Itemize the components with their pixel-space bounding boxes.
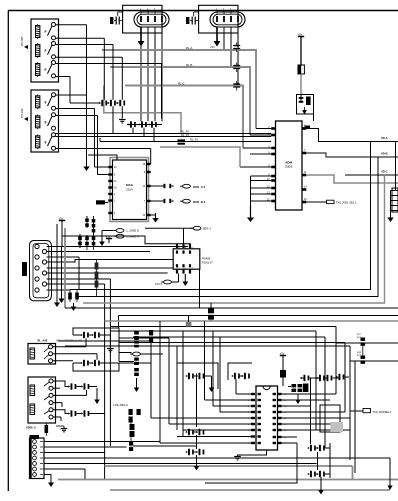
svg-text:MAX: MAX: [126, 183, 133, 187]
svg-text:RL_P0: RL_P0: [181, 130, 189, 134]
svg-text:L_GND 8: L_GND 8: [127, 229, 139, 233]
svg-text:RL_P1: RL_P1: [181, 133, 189, 137]
svg-text:RS-485: RS-485: [20, 36, 24, 46]
svg-text:RS-232: RS-232: [20, 108, 24, 118]
svg-text:RL-B: RL-B: [186, 63, 193, 67]
svg-text:F: F: [45, 49, 47, 53]
svg-text:+5V: +5V: [210, 45, 215, 49]
svg-text:1 45L-45DL.D: 1 45L-45DL.D: [113, 404, 128, 407]
svg-text:RL_P2: RL_P2: [190, 138, 198, 142]
svg-text:VD08_A: VD08_A: [26, 426, 36, 430]
svg-text:F: F: [45, 68, 47, 72]
svg-text:9: 9: [45, 120, 47, 124]
svg-text:F: F: [45, 30, 47, 34]
svg-text:RL-C: RL-C: [178, 81, 185, 85]
svg-text:RL-A: RL-A: [186, 46, 193, 50]
svg-text:RS485: RS485: [202, 257, 211, 261]
svg-text:SER 1: SER 1: [203, 226, 212, 230]
svg-text:L5V 0: L5V 0: [155, 282, 163, 286]
svg-text:VD-B: VD-B: [381, 152, 388, 156]
svg-text:VD-A: VD-A: [381, 136, 388, 140]
svg-text:232A: 232A: [126, 188, 133, 192]
svg-text:9: 9: [45, 140, 47, 144]
svg-text:RXD_A 2: RXD_A 2: [193, 185, 205, 189]
svg-text:VD-C: VD-C: [381, 170, 388, 174]
svg-text:ADM: ADM: [285, 161, 292, 165]
svg-text:TXD_RXD_SEL 1: TXD_RXD_SEL 1: [336, 200, 357, 204]
svg-text:P2020.07: P2020.07: [202, 262, 213, 265]
svg-text:DB9: DB9: [18, 264, 22, 270]
svg-text:9: 9: [45, 100, 47, 104]
svg-text:2582E: 2582E: [285, 165, 293, 169]
svg-text:TXD_WXDSEL 1: TXD_WXDSEL 1: [373, 411, 393, 414]
svg-text:RXD_B 2: RXD_B 2: [193, 200, 206, 204]
svg-text:RL_A08: RL_A08: [38, 339, 48, 343]
